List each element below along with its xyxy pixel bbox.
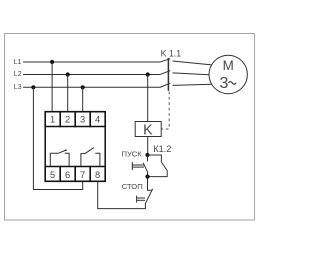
relay contact 5-6 — [50, 149, 69, 166]
terminal 6 — [60, 167, 75, 182]
contactor K1.1 contact phase L1 — [160, 59, 212, 65]
linkage K1.1 — [167, 58, 169, 91]
svg-text:1: 1 — [50, 115, 55, 125]
contactor K1.1 contact phase L3 — [160, 83, 212, 87]
wire L1 to terminal 1 — [51, 62, 53, 112]
motor M 3~ — [209, 55, 247, 93]
svg-text:6: 6 — [65, 170, 70, 180]
svg-text:L2: L2 — [14, 71, 22, 78]
wire СТОП to terminal 8 — [98, 181, 146, 208]
svg-text:5: 5 — [50, 170, 55, 180]
svg-text:4: 4 — [95, 115, 100, 125]
wire L3 to terminal 3 — [82, 87, 84, 111]
terminal 3 — [75, 112, 90, 127]
svg-text:K 1.1: K 1.1 — [161, 48, 182, 58]
junction node B — [145, 175, 149, 179]
junction L2 coil branch — [146, 72, 150, 76]
terminal 7 — [75, 167, 90, 182]
junction L2 to terminal 2 — [66, 72, 70, 76]
coil K — [135, 122, 161, 139]
pushbutton СТОП NC — [137, 177, 153, 204]
wire L3 to terminal 7 — [33, 87, 82, 189]
linkage dashed to coil K — [162, 92, 170, 130]
svg-text:2: 2 — [65, 115, 70, 125]
terminal 2 — [60, 112, 75, 127]
terminal 8 — [90, 167, 105, 182]
junction L1 to terminal 1 — [50, 60, 54, 64]
terminal 1 — [45, 112, 60, 127]
wire L2 to terminal 2 — [67, 75, 69, 112]
contactor K1.1 contact phase L2 — [160, 71, 210, 75]
junction L3 left branch — [31, 85, 35, 89]
svg-text:L3: L3 — [14, 84, 22, 91]
contact К1.2 NO — [148, 155, 168, 177]
junction L3 to terminal 3 — [81, 85, 85, 89]
terminal 4 — [90, 112, 105, 127]
wire L3 — [23, 86, 160, 88]
svg-text:M: M — [223, 58, 234, 73]
svg-text:3: 3 — [80, 115, 85, 125]
svg-text:7: 7 — [80, 170, 85, 180]
svg-text:8: 8 — [95, 170, 100, 180]
svg-text:K: K — [143, 122, 153, 138]
terminal 5 — [45, 167, 60, 182]
svg-text:ПУСК: ПУСК — [121, 150, 142, 159]
wire L1 — [23, 61, 160, 63]
pushbutton ПУСК NO — [132, 155, 147, 177]
wire L2 to coil K — [147, 75, 149, 122]
svg-text:К1.2: К1.2 — [153, 144, 171, 154]
wire coil K to node A — [147, 137, 149, 156]
junction node A — [145, 153, 149, 157]
svg-text:3: 3 — [220, 75, 229, 92]
wire L2 — [23, 74, 160, 76]
svg-text:L1: L1 — [14, 59, 22, 66]
relay module body — [45, 112, 105, 182]
relay contact 7-8 — [81, 148, 100, 167]
svg-text:СТОП: СТОП — [122, 182, 143, 191]
